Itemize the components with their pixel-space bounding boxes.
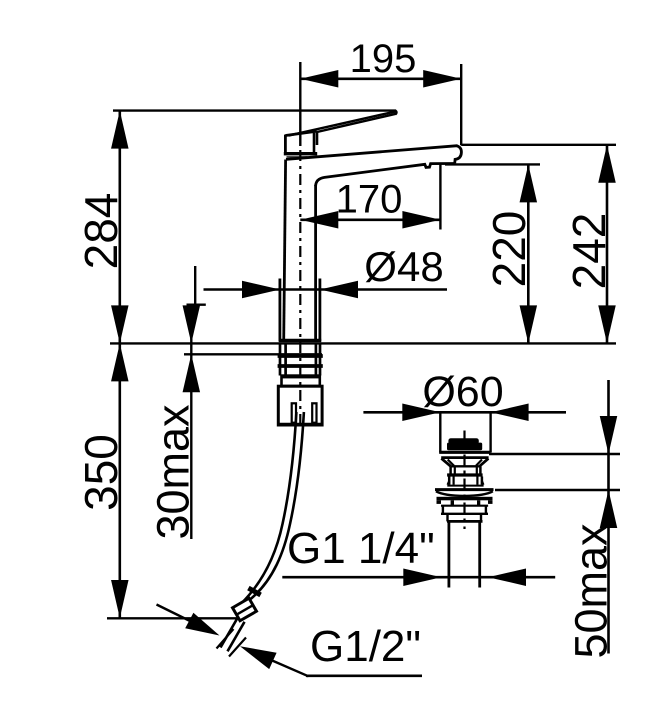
drain neck inner left bbox=[454, 466, 456, 473]
leader A arrowhead bbox=[185, 613, 219, 636]
small mark vertical bbox=[194, 266, 196, 305]
dim 50max arrow down bbox=[600, 416, 618, 454]
svg-text:195: 195 bbox=[350, 37, 417, 81]
head base thin line bbox=[287, 156, 308, 158]
drain mid flare left bbox=[448, 481, 450, 485]
drain hex section right bbox=[485, 506, 487, 514]
nut slot right bbox=[312, 403, 316, 422]
drain bar A bbox=[447, 473, 483, 476]
thread bar 1 bbox=[278, 354, 323, 358]
drain tailpipe left bbox=[447, 521, 450, 587]
drain castellation block right bbox=[477, 500, 480, 505]
dim Ø48 line bbox=[204, 288, 448, 291]
drain thread vertical left bbox=[446, 514, 448, 522]
body left edge bbox=[284, 160, 286, 342]
drain castellation block left bbox=[451, 500, 454, 505]
drain neck outer left bbox=[449, 466, 452, 473]
dim 284 top extension bbox=[113, 109, 396, 111]
spout deck top edge bbox=[286, 146, 458, 160]
lever handle top edge bbox=[289, 111, 396, 135]
dim 50max line bbox=[607, 380, 610, 654]
drain thread line 2 bbox=[447, 520, 483, 523]
lever handle bottom edge bbox=[317, 114, 396, 132]
dim 170 arrow left bbox=[300, 211, 338, 229]
drain mid bottom line bbox=[447, 485, 483, 487]
head left edge bbox=[284, 135, 287, 153]
dim Ø48 arrow pointing right bbox=[242, 281, 280, 299]
drain plug knob band bbox=[447, 443, 482, 451]
dim 195 extension right bbox=[460, 64, 462, 145]
drain centerline dashed bbox=[463, 431, 465, 530]
lever handle tip cap bbox=[396, 111, 397, 115]
leader B shaft bbox=[271, 660, 309, 676]
drain funnel outer left bbox=[441, 458, 450, 466]
centerline dashed bbox=[299, 150, 301, 428]
nut slot left bbox=[292, 403, 296, 422]
dim 50max extension bottom bbox=[495, 489, 620, 491]
leader A shaft bbox=[157, 605, 193, 623]
drain funnel inner right bbox=[476, 460, 482, 466]
svg-text:242: 242 bbox=[563, 213, 615, 290]
base outer right edge bbox=[318, 279, 321, 342]
bottom reference line bbox=[107, 617, 237, 619]
drain locknut tab right bbox=[488, 500, 493, 504]
dim 170 arrow right bbox=[402, 211, 440, 229]
spout underside with aerator notch bbox=[316, 164, 455, 187]
base flange line bbox=[279, 339, 321, 343]
dim 195 arrow left bbox=[300, 70, 338, 88]
svg-text:170: 170 bbox=[336, 178, 403, 222]
thread tick 2 bbox=[229, 638, 246, 657]
svg-text:Ø48: Ø48 bbox=[364, 243, 443, 290]
dim 242 extension bbox=[461, 144, 616, 146]
drain funnel outer right bbox=[480, 458, 489, 466]
lever handle front drop bbox=[316, 131, 319, 145]
dim 30max arrow down bbox=[183, 305, 201, 343]
drain thread line 1 bbox=[441, 513, 488, 515]
shank outer left bbox=[279, 343, 282, 375]
thread bar 2 bbox=[278, 364, 323, 368]
body right edge bbox=[314, 185, 317, 342]
hose end pipe wall 1 bbox=[221, 618, 238, 648]
dim 170 extension right bbox=[439, 163, 441, 229]
washer top band bbox=[282, 375, 320, 378]
drain flange top bbox=[439, 451, 490, 454]
head right edge bbox=[313, 133, 316, 154]
dim Ø60 arrow pointing left bbox=[491, 404, 529, 422]
svg-text:G1/2": G1/2" bbox=[310, 622, 421, 671]
drain hex section left bbox=[442, 506, 444, 514]
svg-text:284: 284 bbox=[75, 193, 127, 270]
drain locknut tab left bbox=[437, 500, 442, 504]
drain mid flare right bbox=[482, 481, 484, 485]
mounting nut bbox=[278, 386, 322, 425]
washer bbox=[282, 376, 320, 386]
dim 220 extension bbox=[445, 163, 540, 165]
dim 30max arrow up bbox=[183, 354, 201, 392]
hose ferrule band bbox=[248, 588, 260, 595]
dim 350 arrow bottom bbox=[111, 580, 129, 618]
G1/2 underline bbox=[306, 674, 422, 677]
drain funnel bottom line bbox=[450, 465, 481, 467]
dim 350 arrow top bbox=[111, 343, 129, 381]
svg-text:50max: 50max bbox=[566, 523, 617, 659]
nut bottom thick edge bbox=[278, 423, 322, 427]
svg-text:G1 1/4": G1 1/4" bbox=[287, 524, 435, 573]
drain flange2 top bbox=[435, 488, 494, 491]
hose end pipe wall 2 bbox=[228, 622, 245, 652]
dim 284 arrow bottom bbox=[111, 305, 129, 343]
leader B arrowhead bbox=[240, 646, 277, 669]
dim Ø60 extension right bbox=[489, 412, 491, 452]
dim 242 arrow top bbox=[598, 145, 616, 183]
dim 50max arrow up bbox=[600, 490, 618, 528]
dim 350 line bbox=[119, 343, 122, 618]
head top edge bbox=[285, 131, 316, 135]
svg-text:Ø60: Ø60 bbox=[422, 368, 503, 416]
dim 220 arrow top bbox=[520, 164, 538, 202]
drain flange2 dish bbox=[436, 491, 493, 496]
dim Ø48 arrow pointing left bbox=[320, 281, 358, 299]
drain funnel inner left bbox=[448, 460, 454, 466]
dim 220 arrow bottom bbox=[520, 305, 538, 343]
dim 242 line bbox=[606, 145, 609, 344]
drain neck outer right bbox=[479, 466, 482, 473]
dim 284 line bbox=[119, 111, 122, 344]
dim 30max line bbox=[190, 306, 192, 539]
svg-text:350: 350 bbox=[75, 434, 127, 511]
drain neck inner right bbox=[476, 466, 478, 473]
counter underside line bbox=[184, 353, 322, 355]
dim 220 line bbox=[527, 164, 530, 343]
drain mid inner right bbox=[476, 477, 478, 485]
svg-text:30max: 30max bbox=[148, 404, 199, 540]
dim G1 1/4 arrow pointing left bbox=[488, 568, 526, 586]
drain mid inner left bbox=[453, 477, 455, 485]
drain mid outer left bbox=[448, 477, 451, 485]
centerline solid upper (195 extension) bbox=[299, 62, 301, 146]
dim 284 arrow top bbox=[111, 111, 129, 149]
counter line bbox=[110, 342, 616, 344]
hose inner wall bbox=[249, 412, 304, 601]
dim 50max extension top bbox=[489, 453, 620, 455]
hose connector block bbox=[233, 598, 257, 620]
dim 195 arrow right bbox=[423, 70, 461, 88]
drain locknut bar bbox=[437, 497, 493, 501]
drain flange lower line bbox=[441, 456, 488, 459]
dim 170 line bbox=[300, 219, 440, 222]
shank inner right bbox=[315, 343, 318, 375]
dim 242 arrow bottom bbox=[598, 305, 616, 343]
spout nose curve bbox=[455, 146, 462, 164]
drain mid outer right bbox=[481, 477, 484, 485]
small mark foot bbox=[187, 304, 206, 306]
drain thread vertical right bbox=[480, 514, 482, 522]
dim 195 line bbox=[300, 78, 461, 81]
svg-text:220: 220 bbox=[483, 211, 535, 288]
dim G1 1/4 line bbox=[282, 576, 555, 579]
drain castellation bottom line bbox=[441, 505, 488, 507]
base outer left edge bbox=[278, 279, 281, 342]
dim Ø60 arrow pointing right bbox=[402, 404, 440, 422]
drain plug knob top bbox=[448, 438, 478, 444]
shank inner left bbox=[284, 343, 287, 375]
drain tailpipe right bbox=[478, 521, 481, 587]
dim Ø60 line bbox=[363, 411, 566, 414]
dim Ø60 extension left bbox=[439, 412, 441, 452]
thread tick 1 bbox=[217, 629, 234, 649]
shank outer right bbox=[319, 343, 322, 375]
head base thick band bbox=[284, 152, 317, 155]
dim G1 1/4 arrow pointing right bbox=[403, 568, 441, 586]
hose outer wall bbox=[241, 412, 296, 604]
